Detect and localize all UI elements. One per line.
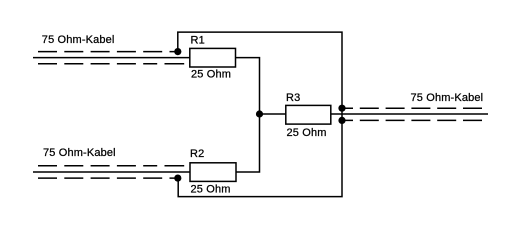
- wire: top input coax shield (upper dashed): [38, 51, 177, 53]
- svg-text:R1: R1: [191, 35, 205, 47]
- wire: center junction to R3 input: [260, 113, 286, 115]
- wire: R1 output to center junction: [236, 58, 260, 114]
- wire: top input coax shield (lower dashed): [38, 63, 184, 65]
- resistor R1: [190, 48, 236, 67]
- node: bottom shield junction dot: [174, 175, 181, 182]
- wire: shield loop (top dot up, top rail, right rail, bottom rail, up to bottom dot): [178, 32, 342, 197]
- svg-text:75 Ohm-Kabel: 75 Ohm-Kabel: [42, 34, 115, 46]
- svg-text:25 Ohm: 25 Ohm: [191, 69, 231, 81]
- wire: R2 output to center junction: [236, 114, 260, 172]
- wire: bottom input coax shield (lower dashed): [38, 177, 177, 179]
- svg-text:R3: R3: [286, 92, 300, 104]
- resistor R2: [190, 163, 236, 182]
- wire: top input coax center conductor (solid): [33, 57, 190, 59]
- svg-text:25 Ohm: 25 Ohm: [191, 184, 231, 196]
- wire: bottom input coax shield (upper dashed): [38, 165, 184, 167]
- svg-text:75 Ohm-Kabel: 75 Ohm-Kabel: [43, 147, 116, 159]
- node: center conductor junction dot: [256, 110, 263, 117]
- svg-text:25 Ohm: 25 Ohm: [287, 127, 327, 139]
- wire: bottom input coax center conductor (solid): [33, 171, 190, 173]
- svg-text:75 Ohm-Kabel: 75 Ohm-Kabel: [411, 92, 484, 104]
- wire: output coax shield (upper dashed): [342, 107, 482, 109]
- wire: output coax shield (lower dashed): [342, 119, 482, 121]
- node: output bottom shield junction dot: [338, 117, 345, 124]
- wire: R3 output / output coax center conductor (solid): [331, 113, 488, 115]
- svg-text:R2: R2: [190, 148, 204, 160]
- node: top shield junction dot: [174, 48, 181, 55]
- node: output top shield junction dot: [338, 105, 345, 112]
- resistor R3: [286, 105, 331, 124]
